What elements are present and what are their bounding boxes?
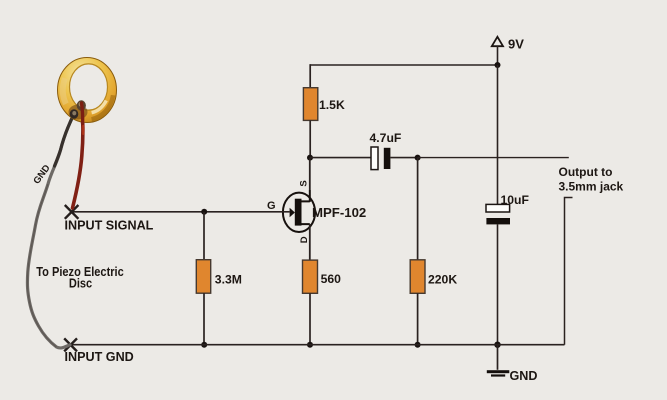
junction: 220K top node [415, 155, 421, 161]
junction: 9V / top rail [495, 62, 501, 68]
solder blob left [70, 109, 79, 118]
svg-text:INPUT GND: INPUT GND [65, 350, 134, 364]
svg-text:D: D [299, 236, 310, 243]
svg-text:220K: 220K [428, 272, 457, 286]
junction: 560 / ground rail [307, 342, 313, 348]
svg-text:G: G [267, 200, 276, 212]
wire: gate line from input X to gate arrow [72, 211, 290, 213]
wire: 560 bottom lead [309, 293, 311, 344]
wire: top rail from 1.5K to 9V column [310, 64, 498, 66]
svg-text:1.5K: 1.5K [319, 98, 345, 112]
capacitor 4.7uF [371, 147, 390, 170]
junction: 220K / ground rail [415, 342, 421, 348]
shadow under solder blobs [69, 105, 88, 120]
svg-text:GND: GND [510, 369, 538, 383]
junction: 10uF / ground rail [494, 342, 500, 348]
wire: 9V column down to 10uF [497, 65, 499, 204]
wire: 1.5K bottom to output node [309, 120, 311, 157]
resistor 560 [303, 260, 318, 293]
wire: output line to right end [418, 157, 569, 159]
svg-text:Disc: Disc [69, 276, 93, 291]
label To Piezo Electric Disc [36, 264, 124, 291]
node X: INPUT SIGNAL terminal [65, 205, 79, 219]
resistor 3.3M [196, 260, 210, 294]
ground symbol [487, 370, 510, 376]
red wire stub over blob [82, 103, 83, 124]
junction: 3.3M / ground rail [201, 342, 207, 348]
wire: 220K top lead [417, 158, 419, 260]
svg-text:560: 560 [321, 272, 342, 286]
wire: 1.5K top lead from top rail [309, 64, 311, 88]
junction: output node at 1.5K/source [307, 155, 313, 161]
light tan left band of disc [63, 78, 66, 104]
wire: 3.3M top lead [203, 212, 205, 260]
wire: output line from node to 4.7uF [310, 157, 371, 159]
wire: 3.5mm jack drop line [565, 198, 573, 345]
resistor 1.5K [303, 88, 317, 121]
capacitor 10uF [486, 204, 510, 224]
junction: gate / 3.3M top [201, 209, 207, 215]
svg-text:9V: 9V [508, 37, 524, 52]
dark outer lower-right shading of disc [92, 95, 114, 119]
wire: ground stub below rail [497, 345, 499, 370]
solder blob right [77, 100, 86, 110]
wire: ground rail [70, 344, 564, 346]
wire: 3.3M bottom lead [203, 293, 205, 345]
supply 9V arrow [492, 37, 503, 46]
wire: 10uF to ground rail [497, 224, 499, 344]
svg-text:3.3M: 3.3M [215, 272, 242, 286]
svg-text:Output to: Output to [559, 165, 613, 179]
svg-text:3.5mm jack: 3.5mm jack [559, 180, 624, 194]
piezo disc red wire to INPUT SIGNAL [73, 103, 84, 208]
node X: INPUT GND terminal [64, 338, 77, 351]
wire: 9V down to top-rail junction [497, 46, 499, 65]
transistor U1 MPF-102 (N-JFET) [283, 193, 315, 232]
wire: 220K bottom lead [417, 293, 419, 344]
inner lower-right highlight of disc [92, 101, 107, 113]
svg-text:MPF-102: MPF-102 [312, 205, 366, 220]
wire: source lead up [309, 190, 311, 202]
wire: 4.7uF to 220K node [390, 157, 417, 159]
svg-text:4.7uF: 4.7uF [370, 131, 402, 145]
piezo disc black wire to INPUT GND [27, 113, 74, 348]
wire: drain lead down to 560 [309, 224, 311, 260]
piezo electric disc [58, 58, 117, 124]
wire: output node down to JFET source lead [309, 158, 311, 202]
svg-text:10uF: 10uF [501, 193, 529, 207]
svg-text:INPUT SIGNAL: INPUT SIGNAL [65, 219, 154, 233]
resistor 220K [410, 260, 425, 294]
svg-text:S: S [299, 180, 310, 186]
